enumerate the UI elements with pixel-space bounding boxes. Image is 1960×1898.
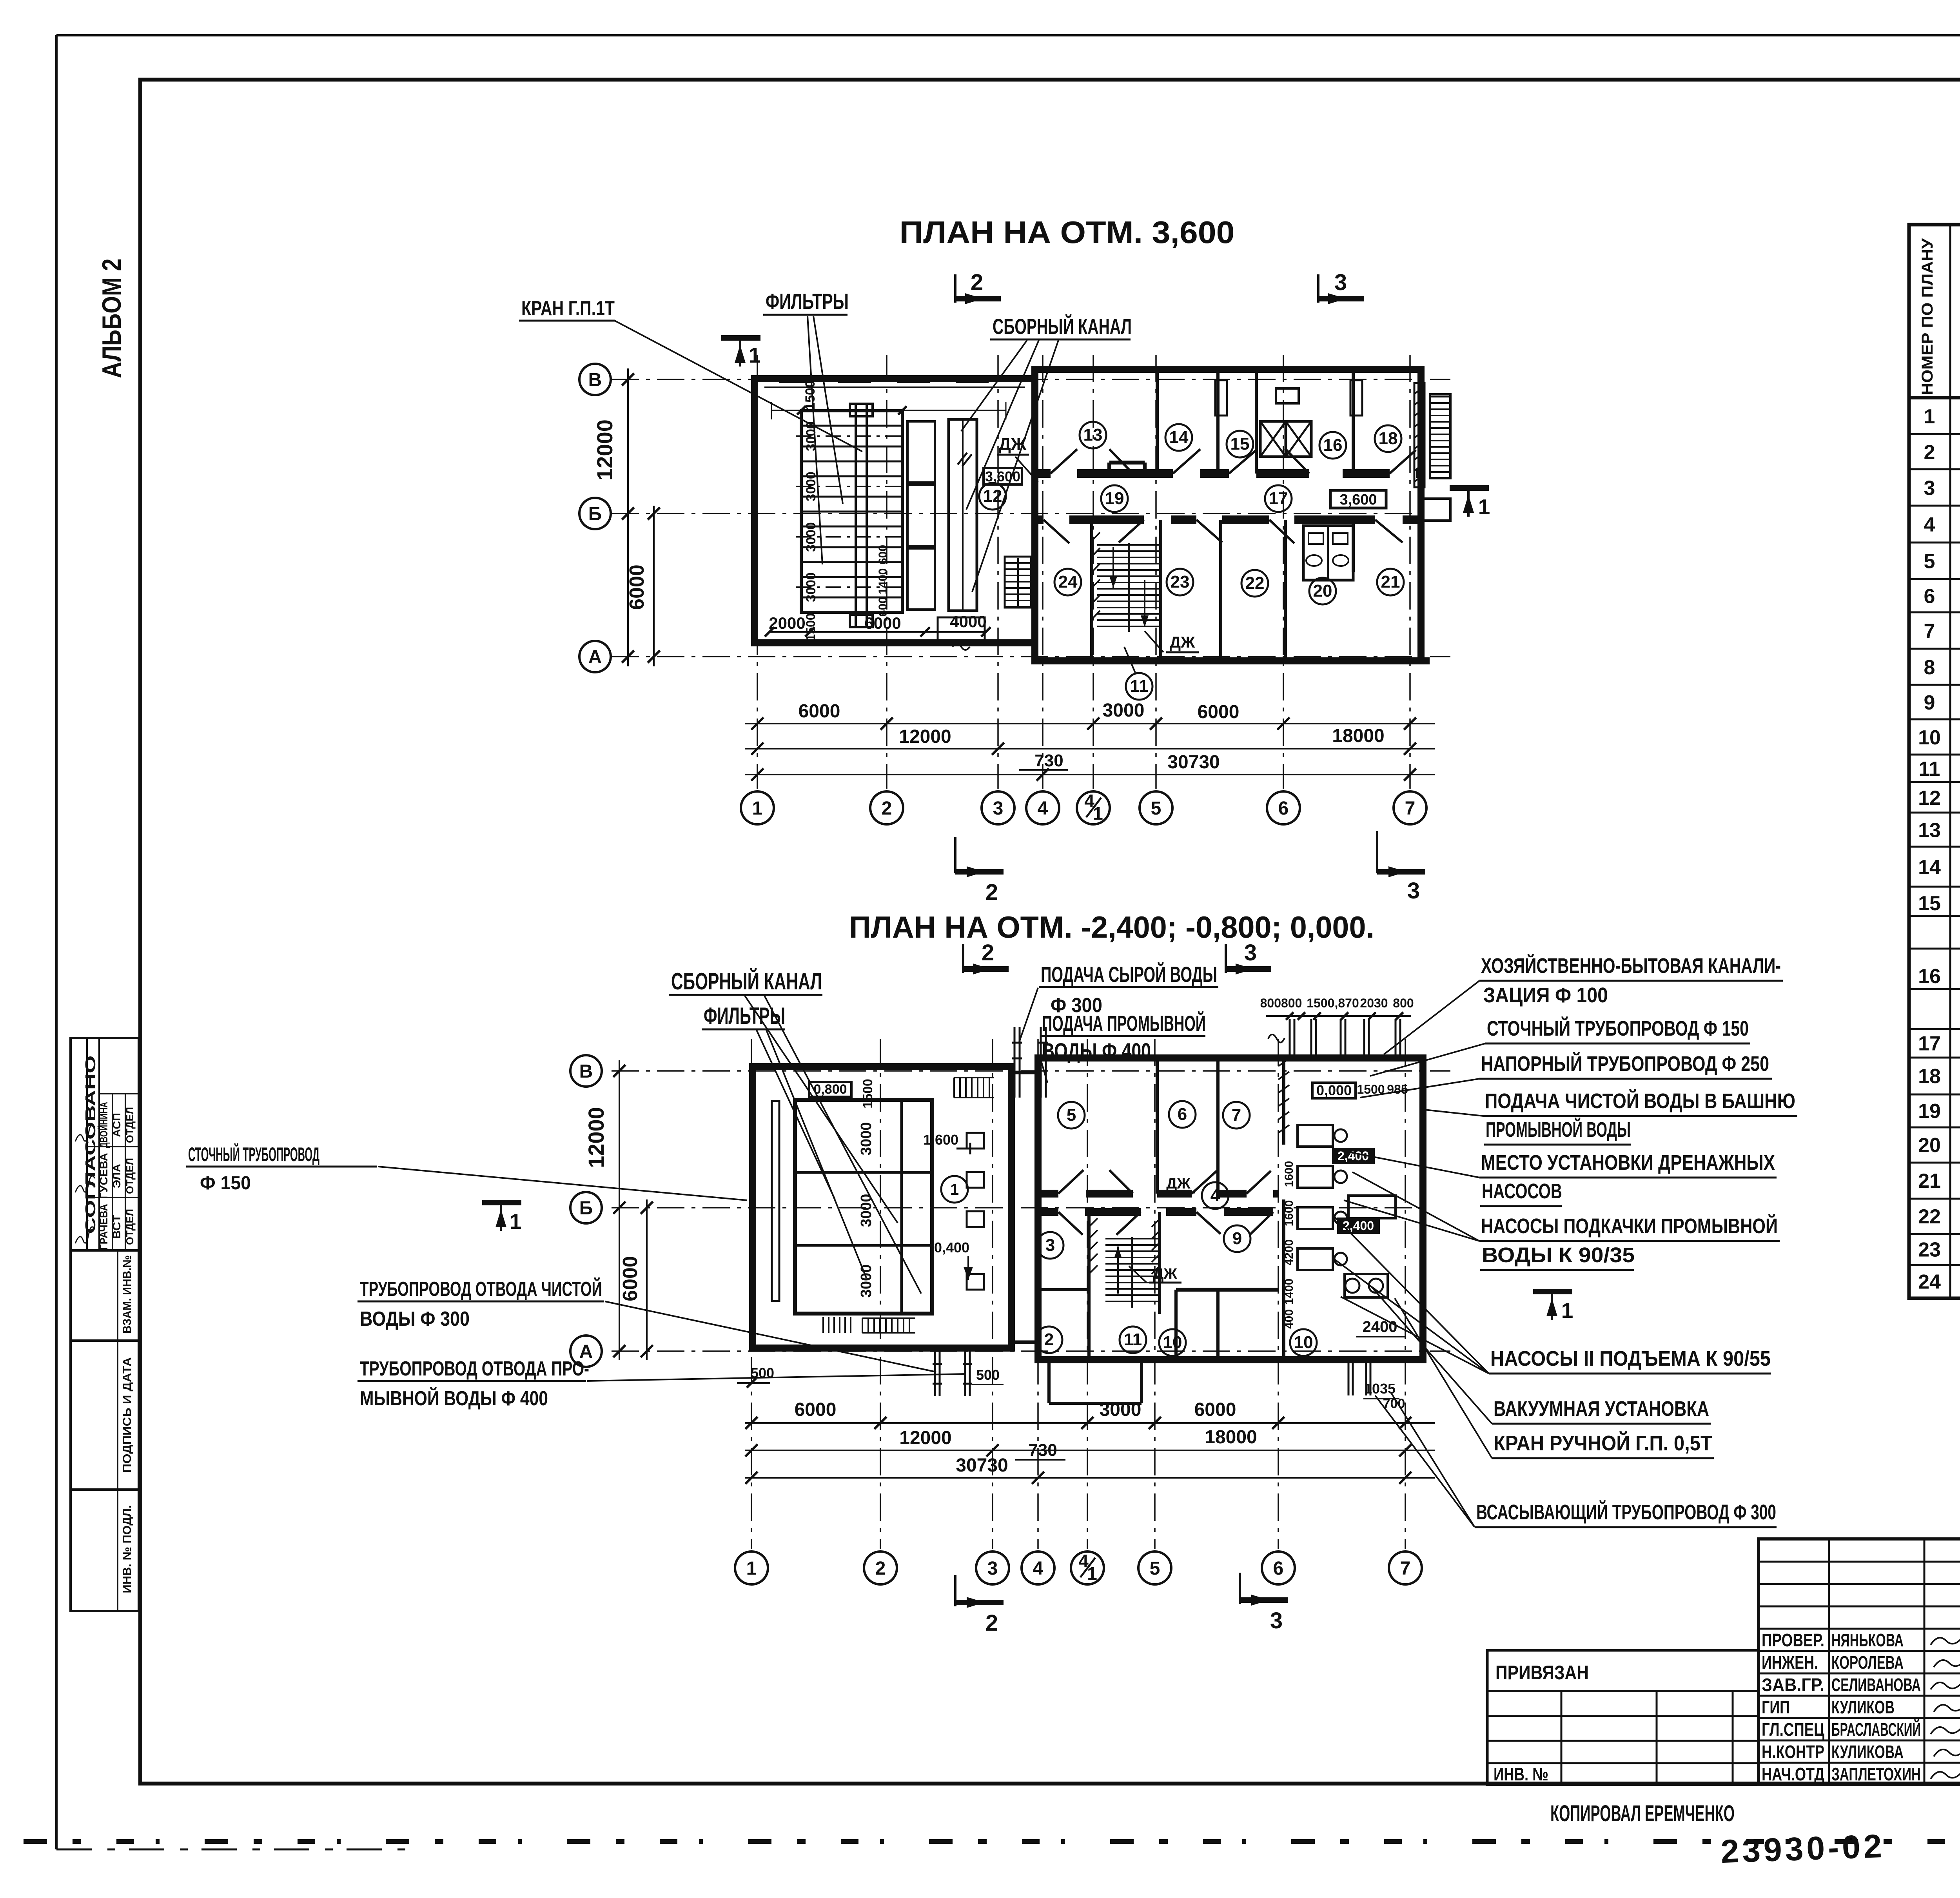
top plan leader: Сборный канал xyxy=(961,314,1132,592)
svg-text:14: 14 xyxy=(1169,428,1189,447)
bottom plan wall strip left xyxy=(772,1101,779,1301)
annotation: Вакуумная установка xyxy=(1371,1287,1711,1424)
svg-text:ВОДЫ Ф 400: ВОДЫ Ф 400 xyxy=(1042,1038,1151,1063)
svg-text:730: 730 xyxy=(1028,1441,1057,1460)
svg-text:ВЗАМ. ИНВ.№: ВЗАМ. ИНВ.№ xyxy=(121,1255,134,1334)
explication table header texts xyxy=(1919,237,1960,395)
svg-text:16: 16 xyxy=(1323,435,1343,455)
top plan room circle 12 xyxy=(979,483,1006,510)
bottom plan feed pipes crossing top wall xyxy=(1012,1027,1048,1098)
svg-text:В: В xyxy=(588,370,602,390)
svg-text:ГУСЕВА: ГУСЕВА xyxy=(98,1153,110,1199)
svg-text:2: 2 xyxy=(875,1558,886,1579)
svg-text:19: 19 xyxy=(1918,1100,1941,1123)
svg-text:0,000: 0,000 xyxy=(1316,1082,1352,1098)
bottom plan title xyxy=(849,910,1374,944)
title block: left signature grid xyxy=(1759,1539,1960,1785)
bottom plan leader: Фильтры xyxy=(702,1003,866,1278)
svg-text:5: 5 xyxy=(1924,550,1935,573)
bottom plan window piers xyxy=(780,1055,1409,1363)
bottom plan black level boxes xyxy=(1333,1149,1379,1233)
svg-text:1035: 1035 xyxy=(1364,1381,1396,1397)
svg-text:7: 7 xyxy=(1924,620,1935,643)
svg-text:1: 1 xyxy=(749,343,761,367)
svg-text:20: 20 xyxy=(1313,581,1332,601)
top plan right stub xyxy=(1421,499,1450,521)
svg-text:ОТДЕЛ: ОТДЕЛ xyxy=(124,1209,136,1245)
bottom plan elevation texts 1,600 / 0,400 xyxy=(923,1132,973,1280)
svg-text:ПРОМЫВНОЙ ВОДЫ: ПРОМЫВНОЙ ВОДЫ xyxy=(1486,1118,1631,1141)
bottom plan section marks 2/3 (top) xyxy=(963,940,1271,974)
inventory cells: ВЗАМ ИНВ / ПОДПИСЬ И ДАТА / ИНВ № ПОДЛ xyxy=(71,1250,139,1611)
bottom plan filter tank xyxy=(795,1100,932,1314)
svg-text:1: 1 xyxy=(752,798,763,819)
svg-text:3000: 3000 xyxy=(1103,700,1145,721)
svg-text:ПРИВЯЗАН: ПРИВЯЗАН xyxy=(1495,1662,1589,1684)
svg-text:КРАН РУЧНОЙ Г.П. 0,5Т: КРАН РУЧНОЙ Г.П. 0,5Т xyxy=(1494,1431,1712,1455)
svg-text:АЛЬБОМ 2: АЛЬБОМ 2 xyxy=(97,259,127,378)
svg-text:3: 3 xyxy=(1334,270,1347,295)
bottom plan leader: Трубопровод отвода промывной воды ф400 xyxy=(358,1357,966,1410)
svg-text:А: А xyxy=(588,647,602,668)
bottom plan pump units xyxy=(1298,1125,1396,1297)
bottom plan leader: Трубопровод отвода чистой воды ф300 xyxy=(358,1277,936,1372)
svg-text:ИНЖЕН.: ИНЖЕН. xyxy=(1762,1652,1818,1673)
bottom plan elevation box 0,000 xyxy=(1312,1082,1356,1098)
svg-text:3000: 3000 xyxy=(858,1265,875,1298)
svg-text:ПОДАЧА ПРОМЫВНОЙ: ПОДАЧА ПРОМЫВНОЙ xyxy=(1042,1011,1206,1036)
bottom plan elevation box 0,800 xyxy=(809,1082,851,1097)
svg-text:ПОДПИСЬ И ДАТА: ПОДПИСЬ И ДАТА xyxy=(121,1357,134,1473)
svg-text:13: 13 xyxy=(1083,425,1103,445)
top plan channel boxes xyxy=(907,421,935,610)
handwritten archive number 23930-02 xyxy=(1720,1827,1886,1870)
bottom plan stairwell xyxy=(1105,1237,1159,1308)
svg-text:18: 18 xyxy=(1379,429,1398,448)
svg-text:2: 2 xyxy=(882,798,892,819)
bottom plan hatched pier near stair xyxy=(1089,1218,1160,1274)
attachment table ПРИВЯЗАН xyxy=(1487,1650,1759,1785)
bottom plan room circles xyxy=(1036,1101,1317,1356)
svg-text:5: 5 xyxy=(1067,1105,1076,1125)
svg-text:0,800: 0,800 xyxy=(813,1082,847,1097)
svg-text:22: 22 xyxy=(1918,1205,1941,1228)
top plan section mark 2 (top) xyxy=(955,270,1001,304)
svg-text:3: 3 xyxy=(1244,940,1257,965)
svg-text:8: 8 xyxy=(1924,656,1935,679)
svg-text:ВСАСЫВАЮЩИЙ ТРУБОПРОВОД Ф 300: ВСАСЫВАЮЩИЙ ТРУБОПРОВОД Ф 300 xyxy=(1476,1500,1776,1524)
bottom plan tambour porch below xyxy=(1049,1360,1142,1403)
top plan elevation box 3,600 (right) xyxy=(1330,490,1386,508)
bottom plan pump hall dim labels xyxy=(1283,1082,1408,1411)
svg-text:10: 10 xyxy=(1294,1333,1313,1352)
svg-text:НЯНЬКОВА: НЯНЬКОВА xyxy=(1831,1630,1904,1650)
top plan grate mark xyxy=(958,453,972,466)
svg-text:СОГЛАСОВАНО: СОГЛАСОВАНО xyxy=(82,1056,98,1234)
svg-text:18000: 18000 xyxy=(1332,726,1384,746)
svg-text:ГЛ.СПЕЦ: ГЛ.СПЕЦ xyxy=(1762,1719,1824,1740)
bottom plan leader: Подача сырой воды ф300 xyxy=(1019,962,1218,1042)
svg-text:ПРОВЕР.: ПРОВЕР. xyxy=(1762,1630,1824,1650)
top plan filter bank xyxy=(796,411,908,612)
svg-text:НАСОСОВ: НАСОСОВ xyxy=(1482,1179,1562,1203)
svg-text:2: 2 xyxy=(1924,441,1935,464)
svg-text:0,400: 0,400 xyxy=(934,1239,969,1256)
svg-text:800800: 800800 xyxy=(1260,996,1302,1010)
svg-text:15: 15 xyxy=(1918,892,1941,915)
bottom plan axis bubbles 1-7 xyxy=(735,1551,1422,1584)
svg-text:21: 21 xyxy=(1918,1170,1941,1192)
bottom scan tear dashed line xyxy=(24,1839,1960,1844)
svg-text:АСП: АСП xyxy=(111,1113,123,1137)
top plan interior dim line left block top xyxy=(771,402,1006,419)
top plan hatched wall right xyxy=(1414,383,1425,487)
svg-text:МЫВНОЙ ВОДЫ Ф 400: МЫВНОЙ ВОДЫ Ф 400 xyxy=(360,1387,548,1410)
svg-text:ХОЗЯЙСТВЕННО-БЫТОВАЯ КАНАЛИ-: ХОЗЯЙСТВЕННО-БЫТОВАЯ КАНАЛИ- xyxy=(1481,954,1781,978)
top plan corridor door leaves xyxy=(1044,448,1416,543)
svg-text:600: 600 xyxy=(877,545,889,564)
svg-text:14: 14 xyxy=(1918,856,1941,879)
svg-text:30730: 30730 xyxy=(956,1455,1008,1476)
svg-text:6: 6 xyxy=(1273,1558,1284,1579)
svg-text:730: 730 xyxy=(1034,751,1063,770)
top plan stairwell treads xyxy=(1097,543,1160,632)
svg-text:10: 10 xyxy=(1163,1333,1182,1352)
svg-text:ФИЛЬТРЫ: ФИЛЬТРЫ xyxy=(766,289,849,314)
svg-text:24: 24 xyxy=(1058,572,1078,592)
svg-text:1600: 1600 xyxy=(1283,1161,1296,1187)
top plan leader: Фильтры xyxy=(763,289,849,564)
annotation: Насосы подкачки промывной воды К90/35 xyxy=(1344,1172,1780,1270)
svg-text:ФИЛЬТРЫ: ФИЛЬТРЫ xyxy=(704,1003,785,1029)
svg-text:3: 3 xyxy=(1270,1608,1283,1633)
svg-text:19: 19 xyxy=(1105,489,1124,508)
svg-text:ПОДАЧА ЧИСТОЙ ВОДЫ В БАШНЮ: ПОДАЧА ЧИСТОЙ ВОДЫ В БАШНЮ xyxy=(1485,1089,1795,1113)
svg-text:23: 23 xyxy=(1171,572,1190,592)
top plan outer walls right block xyxy=(1035,369,1421,661)
svg-text:17: 17 xyxy=(1269,489,1288,508)
svg-text:НАСОСЫ II ПОДЪЕМА К 90/55: НАСОСЫ II ПОДЪЕМА К 90/55 xyxy=(1490,1347,1771,1370)
top plan small stair at junction xyxy=(1005,557,1031,608)
svg-text:11: 11 xyxy=(1124,1330,1142,1349)
top plan crane beam xyxy=(850,404,873,627)
svg-text:9: 9 xyxy=(1232,1229,1242,1248)
bottom plan corridor walls xyxy=(1038,1194,1278,1212)
svg-text:2030: 2030 xyxy=(1360,996,1388,1010)
svg-text:4: 4 xyxy=(1038,798,1048,819)
annotation: Место установки дренажных насосов xyxy=(1341,1150,1777,1206)
svg-text:22: 22 xyxy=(1245,573,1265,593)
svg-text:4200: 4200 xyxy=(1283,1239,1296,1266)
svg-text:ОТДЕЛ: ОТДЕЛ xyxy=(124,1107,136,1143)
svg-text:ПЛАН НА ОТМ. 3,600: ПЛАН НА ОТМ. 3,600 xyxy=(900,215,1235,250)
svg-text:4000: 4000 xyxy=(950,612,986,631)
bottom plan leader: Сточный трубопровод ф150 (left) xyxy=(186,1143,747,1200)
explication rows 1-14 xyxy=(1918,402,1960,879)
top plan corridor lower wall xyxy=(1035,515,1421,524)
svg-text:1: 1 xyxy=(746,1558,757,1579)
bottom plan channel marks below tank xyxy=(823,1317,915,1333)
bottom plan bottom dimension chains xyxy=(737,1365,1435,1484)
svg-text:20: 20 xyxy=(1918,1134,1941,1157)
svg-text:КОРОЛЕВА: КОРОЛЕВА xyxy=(1831,1652,1904,1673)
svg-text:1: 1 xyxy=(1478,495,1490,519)
explication rows 15-16 (two-line) xyxy=(1918,891,1960,1023)
svg-text:4: 4 xyxy=(1033,1558,1044,1579)
svg-text:ИНВ. № ПОДЛ.: ИНВ. № ПОДЛ. xyxy=(121,1505,134,1593)
svg-text:СЕЛИВАНОВА: СЕЛИВАНОВА xyxy=(1831,1675,1921,1695)
svg-text:3000: 3000 xyxy=(804,421,818,451)
svg-text:ИНВ. №: ИНВ. № xyxy=(1494,1764,1548,1784)
svg-text:1600: 1600 xyxy=(1283,1200,1296,1227)
top plan title: План на отм. 3,600 xyxy=(900,215,1235,250)
svg-text:ВАКУУМНАЯ УСТАНОВКА: ВАКУУМНАЯ УСТАНОВКА xyxy=(1494,1397,1709,1421)
svg-text:6000: 6000 xyxy=(619,1256,642,1301)
svg-text:2: 2 xyxy=(982,940,994,965)
top plan section mark 1 (right) xyxy=(1450,488,1490,519)
svg-text:КОПИРОВАЛ ЕРЕМЧЕНКО: КОПИРОВАЛ ЕРЕМЧЕНКО xyxy=(1550,1801,1735,1826)
svg-text:2400: 2400 xyxy=(1363,1318,1397,1335)
approval table (Согласовано) xyxy=(71,1038,139,1250)
annotation: Всасывающий трубопровод ф300 xyxy=(1375,1392,1777,1527)
annotation: Подача чистой воды в башню промывной воды xyxy=(1421,1089,1797,1145)
bottom plan corridor door leaves xyxy=(1058,1170,1273,1235)
svg-text:СТОЧНЫЙ ТРУБОПРОВОД: СТОЧНЫЙ ТРУБОПРОВОД xyxy=(188,1143,319,1165)
svg-text:3000: 3000 xyxy=(804,522,818,552)
bottom plan outer walls right block xyxy=(1038,1058,1423,1360)
svg-text:10: 10 xyxy=(1918,726,1941,749)
bottom plan discharge pipes below left block xyxy=(933,1348,972,1396)
svg-text:НАПОРНЫЙ ТРУБОПРОВОД Ф 250: НАПОРНЫЙ ТРУБОПРОВОД Ф 250 xyxy=(1481,1052,1769,1076)
svg-text:КРАН Г.П.1Т: КРАН Г.П.1Т xyxy=(521,297,615,320)
bottom plan row axes dash-dot В Б А xyxy=(612,1071,1450,1351)
svg-text:6000: 6000 xyxy=(1194,1399,1236,1420)
bottom plan gallery equipment boxes xyxy=(967,1133,984,1290)
svg-text:11: 11 xyxy=(1130,677,1149,696)
top plan collection channel (сборный канал) xyxy=(949,419,977,611)
top plan axis bubbles 1-7 xyxy=(741,791,1426,824)
svg-text:1500,870: 1500,870 xyxy=(1307,996,1359,1010)
top plan outer walls left block (filter hall) xyxy=(755,379,1035,643)
svg-text:СТОЧНЫЙ ТРУБОПРОВОД Ф 150: СТОЧНЫЙ ТРУБОПРОВОД Ф 150 xyxy=(1487,1016,1749,1040)
svg-text:7: 7 xyxy=(1400,1558,1411,1579)
top plan corridor wall notch near room 13 xyxy=(1109,463,1145,474)
svg-text:800: 800 xyxy=(1393,996,1414,1010)
svg-text:В: В xyxy=(579,1061,593,1082)
svg-text:4: 4 xyxy=(1924,514,1935,536)
svg-text:1: 1 xyxy=(1561,1298,1573,1323)
annotation: Кран ручной г.п. 0,5т xyxy=(1395,1298,1714,1458)
svg-text:12: 12 xyxy=(983,486,1002,506)
svg-text:23: 23 xyxy=(1918,1239,1941,1261)
svg-text:ДЖ: ДЖ xyxy=(1153,1266,1177,1282)
svg-text:3000: 3000 xyxy=(858,1122,875,1156)
top plan sanitary unit room 20 xyxy=(1303,526,1353,580)
annotation: Хозяйственно-бытовая канализация ф100 xyxy=(1384,954,1783,1054)
svg-text:6000: 6000 xyxy=(1198,702,1240,722)
svg-text:3: 3 xyxy=(1924,477,1935,500)
svg-text:1500: 1500 xyxy=(804,613,818,641)
svg-text:11: 11 xyxy=(1919,758,1940,780)
bottom plan suction pipes below wall xyxy=(1348,1360,1370,1395)
top plan corridor upper wall xyxy=(1035,469,1421,478)
svg-text:ПОДАЧА СЫРОЙ ВОДЫ: ПОДАЧА СЫРОЙ ВОДЫ xyxy=(1041,962,1217,987)
svg-text:7: 7 xyxy=(1232,1105,1241,1125)
svg-text:23930-02: 23930-02 xyxy=(1720,1827,1886,1870)
svg-text:2: 2 xyxy=(985,1610,998,1636)
svg-text:9: 9 xyxy=(1924,691,1935,714)
annotation: Напорный трубопровод ф250 xyxy=(1360,1052,1772,1098)
top plan bottom dimension chains xyxy=(745,700,1435,781)
top plan leader: Кран г.п.1т xyxy=(519,297,862,452)
bottom plan outer walls left block xyxy=(753,1067,1011,1348)
svg-text:17: 17 xyxy=(1918,1032,1941,1055)
bottom plan ДЖ labels xyxy=(1129,1176,1195,1283)
top plan section mark 1 (left) xyxy=(721,338,760,367)
svg-text:1,600: 1,600 xyxy=(923,1132,958,1148)
svg-text:ВОДЫ Ф 300: ВОДЫ Ф 300 xyxy=(360,1308,470,1330)
svg-text:2000: 2000 xyxy=(769,614,805,632)
explication rows 17-24 xyxy=(1918,1029,1960,1294)
bottom plan left vertical dimension 12000/6000 xyxy=(584,1060,653,1360)
svg-text:6: 6 xyxy=(1924,585,1935,608)
svg-text:16: 16 xyxy=(1918,965,1941,988)
svg-text:5: 5 xyxy=(1150,1558,1160,1579)
svg-text:21: 21 xyxy=(1381,572,1400,592)
svg-text:1: 1 xyxy=(1924,405,1935,428)
svg-text:4: 4 xyxy=(1210,1186,1220,1205)
bottom plan row bubbles В Б А xyxy=(570,1055,602,1367)
bottom plan leader: Подача промывной воды ф400 xyxy=(1040,1011,1206,1083)
svg-text:1500: 1500 xyxy=(860,1079,875,1109)
svg-text:Н.КОНТР: Н.КОНТР xyxy=(1762,1742,1824,1762)
svg-text:6: 6 xyxy=(1278,798,1289,819)
svg-text:3000: 3000 xyxy=(1100,1399,1142,1420)
svg-text:СБОРНЫЙ КАНАЛ: СБОРНЫЙ КАНАЛ xyxy=(993,314,1132,339)
bottom plan grid axes vertical dash-dot lines xyxy=(751,1039,1405,1549)
svg-text:24: 24 xyxy=(1918,1271,1941,1294)
svg-text:12000: 12000 xyxy=(592,419,617,481)
svg-text:КУЛИКОВА: КУЛИКОВА xyxy=(1831,1742,1904,1762)
svg-text:НАЧ.ОТД: НАЧ.ОТД xyxy=(1762,1764,1824,1784)
svg-text:НОМЕР ПО ПЛАНУ: НОМЕР ПО ПЛАНУ xyxy=(1919,238,1936,395)
svg-text:7: 7 xyxy=(1405,798,1416,819)
album label: Альбом 2 xyxy=(97,259,127,378)
svg-text:6000: 6000 xyxy=(799,701,840,722)
top plan elevation box 3,600 (left) xyxy=(984,468,1022,484)
svg-text:3,600: 3,600 xyxy=(985,468,1020,484)
svg-text:13: 13 xyxy=(1918,819,1941,842)
svg-text:12: 12 xyxy=(1918,787,1941,809)
svg-text:3000: 3000 xyxy=(804,472,818,501)
bottom plan pump hall wall xyxy=(1278,1058,1289,1360)
svg-text:ПЛАН НА ОТМ. -2,400; -0,800; 0: ПЛАН НА ОТМ. -2,400; -0,800; 0,000. xyxy=(849,910,1374,944)
svg-text:985: 985 xyxy=(1387,1082,1408,1096)
bottom plan riser pipes above top wall xyxy=(1260,996,1414,1058)
svg-text:ГРАЧЕВА: ГРАЧЕВА xyxy=(98,1204,110,1250)
svg-text:ДЖ: ДЖ xyxy=(1170,634,1195,651)
svg-text:ТРУБОПРОВОД ОТВОДА ЧИСТОЙ: ТРУБОПРОВОД ОТВОДА ЧИСТОЙ xyxy=(360,1277,602,1301)
top plan grid axes vertical dash-dot lines xyxy=(757,355,1410,789)
svg-text:2: 2 xyxy=(985,880,998,905)
top plan section mark 3 (top) xyxy=(1318,270,1364,304)
top plan section marks 2/3 (bottom) xyxy=(955,831,1425,905)
svg-text:6: 6 xyxy=(1178,1105,1187,1124)
top plan interior dim row 2000/1500/6000/4000 xyxy=(765,612,991,650)
svg-text:СБОРНЫЙ КАНАЛ: СБОРНЫЙ КАНАЛ xyxy=(671,968,822,994)
svg-text:15: 15 xyxy=(1230,434,1250,454)
svg-text:ЗАПЛЕТОХИН: ЗАПЛЕТОХИН xyxy=(1831,1764,1921,1784)
svg-text:ГИП: ГИП xyxy=(1762,1697,1790,1717)
svg-text:3: 3 xyxy=(993,798,1004,819)
svg-text:ТРУБОПРОВОД ОТВОДА ПРО-: ТРУБОПРОВОД ОТВОДА ПРО- xyxy=(360,1357,589,1380)
bottom plan partitions lower rooms xyxy=(1038,1212,1278,1360)
svg-text:БРАСЛАВСКИЙ: БРАСЛАВСКИЙ xyxy=(1831,1719,1921,1740)
bottom plan ladder hatch near gallery top xyxy=(954,1078,994,1098)
svg-text:12000: 12000 xyxy=(899,726,951,747)
svg-text:МЕСТО УСТАНОВКИ ДРЕНАЖНЫХ: МЕСТО УСТАНОВКИ ДРЕНАЖНЫХ xyxy=(1481,1151,1775,1174)
top plan room number circles xyxy=(1054,422,1404,700)
svg-text:Ф 150: Ф 150 xyxy=(200,1173,251,1194)
svg-text:Б: Б xyxy=(588,504,602,524)
top plan ДЖ label (left) xyxy=(997,435,1038,482)
bottom plan gallery room circle 1 xyxy=(941,1176,968,1203)
top plan row axes dash-dot lines В Б А xyxy=(612,379,1450,657)
svg-text:12000: 12000 xyxy=(899,1428,951,1448)
bottom plan partitions upper rooms 5/6/7 xyxy=(1157,1058,1218,1194)
svg-text:6000: 6000 xyxy=(626,564,648,610)
svg-text:1400: 1400 xyxy=(877,568,889,595)
svg-text:12000: 12000 xyxy=(584,1107,608,1168)
bottom plan leader: Сборный канал xyxy=(669,968,921,1294)
svg-text:3000: 3000 xyxy=(804,572,818,602)
top plan partitions lower rooms 24/23/22/20/21 xyxy=(1092,520,1353,661)
top plan partitions upper rooms 13/14/15/16/18 xyxy=(1157,369,1362,474)
top plan filter dimension labels 1500/3000 xyxy=(803,380,889,617)
svg-text:НАСОСЫ ПОДКАЧКИ ПРОМЫВНОЙ: НАСОСЫ ПОДКАЧКИ ПРОМЫВНОЙ xyxy=(1481,1214,1778,1238)
svg-text:ВОДЫ К 90/35: ВОДЫ К 90/35 xyxy=(1482,1243,1635,1267)
annotation: Насосы II подъема К90/55 xyxy=(1332,1217,1771,1374)
svg-text:1: 1 xyxy=(950,1181,959,1198)
bottom plan section marks 2/3 (bottom) xyxy=(955,1573,1288,1636)
svg-text:1: 1 xyxy=(510,1209,522,1234)
svg-text:ВСТ: ВСТ xyxy=(111,1215,123,1239)
bottom plan section mark 1 (right) xyxy=(1533,1292,1573,1323)
svg-text:1500: 1500 xyxy=(803,380,818,410)
svg-text:КУЛИКОВ: КУЛИКОВ xyxy=(1831,1697,1895,1717)
top plan window piers on outer walls xyxy=(780,367,1429,664)
bottom plan tank dimension labels xyxy=(858,1079,875,1297)
svg-text:18000: 18000 xyxy=(1205,1427,1257,1448)
explication table grid xyxy=(1909,225,1960,1298)
svg-text:6000: 6000 xyxy=(864,614,901,632)
svg-text:18: 18 xyxy=(1918,1065,1941,1088)
svg-text:ЗАВ.ГР.: ЗАВ.ГР. xyxy=(1762,1675,1824,1695)
svg-text:Б: Б xyxy=(579,1198,593,1219)
svg-text:30730: 30730 xyxy=(1167,752,1220,773)
svg-text:1400: 1400 xyxy=(1283,1279,1296,1305)
bottom plan section mark 1 (left) xyxy=(482,1203,521,1234)
annotation: Сточный трубопровод ф150 xyxy=(1370,1016,1750,1076)
svg-text:3,600: 3,600 xyxy=(1339,492,1377,508)
svg-text:400: 400 xyxy=(1283,1309,1296,1329)
bottom caption: Копировал Еремченко xyxy=(1550,1801,1735,1826)
svg-text:5: 5 xyxy=(1151,798,1161,819)
bottom plan gallery walls between blocks xyxy=(1011,1067,1038,1348)
svg-text:500: 500 xyxy=(976,1367,1000,1383)
svg-text:6000: 6000 xyxy=(795,1399,837,1420)
top plan left vertical dimension line 12000/6000 xyxy=(592,368,660,666)
